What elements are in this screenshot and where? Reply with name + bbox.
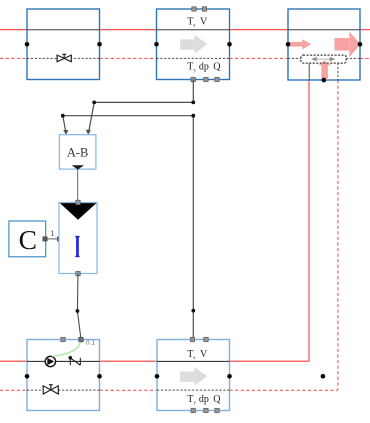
port a S2 [155,374,160,379]
port a V1 [25,42,30,47]
valve symbol in P1 [43,385,58,394]
constant block C [9,221,46,257]
return riser right (red dashed vertical) [337,80,339,390]
sensor block S2 (bottom-middle) [157,340,230,411]
return line top (red dashed) [0,57,370,59]
bottom connectors S1 [191,77,219,81]
junction dot B1 [191,114,195,118]
connector square integrator input [57,237,61,241]
flow arrow S2 [180,367,207,386]
wire sensor S2 to difference block (signal B) [63,116,194,340]
port bottom U1 [322,78,327,83]
mixing box arrows U1 [312,57,335,61]
top connectors S2 [190,337,208,341]
pipe supply inside P1 [27,360,100,362]
junction dot W5 [76,309,80,313]
up pink arrow U1 [318,60,330,80]
svg-text:A-B: A-B [67,146,89,160]
arrowhead into difference block right input [86,130,91,135]
pipe supply inside S1 [157,29,230,31]
port b S1 [227,42,232,47]
pipe return inside P1 (dashed) [27,389,100,391]
connector square integrator top [76,200,80,204]
return line bottom (red dashed) [0,389,338,391]
pipe supply inside U1 [288,29,360,31]
svg-text:1: 1 [51,229,55,238]
pipe return inside U1 (dashed right) [346,57,360,59]
isolated port dot bottom-right [321,374,326,379]
top connectors S1 [192,7,207,11]
connector square integrator bottom [76,271,80,275]
wire difference to integrator [77,170,79,203]
green control curve [52,340,81,356]
pipe return inside S1 (dashed) [157,57,230,59]
mixing box border restroke [301,55,346,63]
pipe return inside S2 (dashed) [157,389,230,391]
wire C to integrator [45,238,60,240]
integrator block I [59,203,97,274]
port b U1 [358,42,363,47]
valve block V1 (top-left) [27,9,100,80]
junction dot B3 [191,309,195,313]
port b P1 [97,374,102,379]
port a U1 [286,42,291,47]
svg-text:TydpQ: TydpQ [187,394,221,406]
supply line top (red solid) [0,29,370,31]
supply line bottom (red solid) [0,360,309,362]
valve symbol in V1 [57,54,71,61]
small pink arrow U1 [290,39,312,49]
integrator top triangle [60,203,97,220]
big pink arrow U1 [334,32,360,58]
top connectors P1 [61,337,65,341]
pipe return inside V1 (dashed) [27,57,100,59]
pipe supply inside V1 [27,29,100,31]
label I (blue) [76,236,79,257]
mixing box U1 (dashed rounded) [301,55,346,63]
output triangle of difference block [72,165,84,169]
drop line U1 (solid dark) [308,63,310,80]
svg-text:0.1: 0.1 [86,340,95,347]
flow arrow S1 [180,35,207,54]
wire integrator to pump block [77,274,81,340]
junction dot B2 [61,114,65,118]
port a P1 [25,374,30,379]
pipe supply inside S2 [157,360,230,362]
port b V1 [97,42,102,47]
svg-text:TydpQ: TydpQ [187,62,221,74]
pump block P1 (bottom-left) [27,340,100,411]
port a S1 [154,42,159,47]
svg-text:C: C [19,224,37,255]
junction dot A1 [191,101,195,105]
pump symbol [45,356,55,366]
supply riser right (red solid vertical) [308,80,310,361]
arrowhead into difference block left input [63,130,68,135]
junction dot A2 [92,101,96,105]
port b S2 [227,374,232,379]
difference block A-B [59,135,96,169]
check valve symbol [70,358,80,365]
pipe return inside U1 (dashed left) [288,57,301,59]
sensor block S1 (top-middle) [157,9,230,80]
connector square C output [43,237,47,241]
wire sensor S1 to difference block (signal A) [89,80,194,132]
substation block U1 (top-right) [288,9,360,80]
drop line U1 (dashed dark) [337,63,339,80]
bottom connectors S2 [191,408,219,412]
